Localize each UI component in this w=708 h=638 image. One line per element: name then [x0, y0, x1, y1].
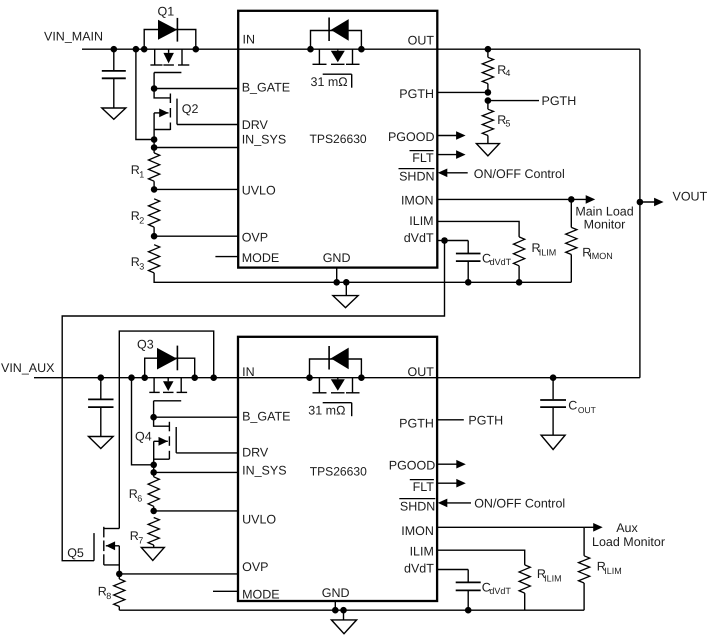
junction dot Q1 drain [193, 46, 200, 53]
op-amp U2 TPS26630 box [238, 337, 437, 601]
svg-text:B_GATE: B_GATE [242, 80, 290, 94]
wire Q4 source branch [132, 378, 154, 465]
wire SHDN arrow U2 [445, 502, 471, 504]
junction dot OVP node [151, 233, 158, 240]
resistor R8 [118, 574, 120, 579]
svg-text:FLT: FLT [412, 151, 434, 165]
wire DRV to IC2 [176, 452, 238, 454]
svg-text:IN: IN [242, 365, 255, 379]
svg-text:PGOOD: PGOOD [389, 458, 436, 472]
ground COUT [541, 435, 565, 449]
svg-text:VOUT: VOUT [673, 190, 708, 204]
svg-text:PGTH: PGTH [399, 417, 434, 431]
svg-text:PGTH: PGTH [542, 94, 577, 108]
svg-text:31 mΩ: 31 mΩ [311, 75, 348, 89]
junction dot Q2 source branch [133, 46, 140, 53]
svg-text:OUT: OUT [408, 34, 435, 48]
diode U2 internal body diode [331, 348, 349, 370]
wire Q2 source branch [136, 49, 154, 139]
capacitor CdVdT aux [467, 570, 469, 583]
ground R5 [476, 144, 499, 156]
wire UVLO to IC1 [154, 188, 238, 190]
svg-text:Aux: Aux [616, 521, 638, 535]
resistor R1 [153, 140, 155, 153]
svg-text:OVP: OVP [242, 230, 268, 244]
wire OUT vertical to VOUT rail [639, 49, 641, 378]
wire R3 bottom to ground rail [154, 273, 571, 282]
svg-text:ILIM: ILIM [410, 545, 434, 559]
svg-text:GND: GND [322, 586, 350, 600]
svg-text:C: C [568, 399, 577, 413]
svg-text:SHDN: SHDN [399, 169, 434, 183]
wire PGOOD arrow U2 [437, 463, 460, 465]
wire B_GATE to IC1 [154, 88, 238, 90]
svg-text:MODE: MODE [242, 251, 280, 265]
svg-text:UVLO: UVLO [242, 513, 276, 527]
svg-text:UVLO: UVLO [242, 184, 276, 198]
junction dot RILIM ground rail [516, 279, 523, 286]
diode Q1 body diode loop wire [144, 30, 196, 50]
junction dot dVdT node [441, 237, 448, 244]
junction dot Q5 source OVP node [116, 571, 123, 578]
wire ILIM to RILIM [437, 221, 519, 237]
svg-text:Load Monitor: Load Monitor [592, 535, 665, 549]
wire IMON arrow aux [584, 526, 597, 528]
resistor R5 [487, 101, 489, 110]
svg-text:VIN_MAIN: VIN_MAIN [44, 30, 103, 44]
junction dot CdVdT ground rail [465, 279, 472, 286]
wire MODE stub U1 [215, 256, 238, 258]
svg-text:OUT: OUT [578, 405, 596, 415]
junction dot COUT branch [550, 374, 557, 381]
wire PGOOD arrow U1 [437, 135, 459, 137]
junction dot GND pin rail [333, 279, 340, 286]
op-amp U1 TPS26630 box [238, 11, 437, 268]
junction dot IMON node [568, 196, 575, 203]
value label 31 mOhm U2 [323, 402, 352, 404]
svg-text:FLT: FLT [413, 480, 435, 494]
svg-text:1: 1 [139, 170, 144, 180]
junction dot PGTH divider [485, 89, 492, 96]
junction dot GND pin rail aux [332, 607, 339, 614]
junction dot B_GATE node [151, 85, 158, 92]
svg-text:IN_SYS: IN_SYS [242, 463, 286, 477]
junction dot VOUT arrow [637, 199, 644, 206]
junction dot Q4 source branch [128, 374, 135, 381]
svg-text:dVdT: dVdT [489, 586, 511, 596]
diode U2 internal body diode loop [310, 359, 362, 378]
junction dot OUT R4 top [485, 46, 492, 53]
svg-text:ON/OFF Control: ON/OFF Control [474, 497, 565, 511]
wire OVP to IC1 [154, 235, 238, 237]
resistor R4 [487, 49, 489, 57]
junction dot U2 FET right [358, 374, 365, 381]
svg-text:dVdT: dVdT [490, 257, 512, 267]
ground R7 [141, 548, 164, 561]
junction dot GND symbol branch [343, 279, 350, 286]
wire DRV to IC1 [177, 124, 238, 126]
svg-text:B_GATE: B_GATE [242, 409, 290, 423]
svg-text:ILIM: ILIM [539, 248, 557, 258]
svg-text:MODE: MODE [242, 588, 280, 602]
junction dot Q2 source elbow [151, 136, 158, 143]
svg-text:OVP: OVP [242, 560, 268, 574]
svg-text:DRV: DRV [242, 118, 269, 132]
wire dVdT long run to Q5 gate [62, 241, 444, 561]
wire IN_SYS to IC1 [154, 147, 238, 149]
junction dot IN_SYS node [151, 144, 158, 151]
resistor RILIM aux right [583, 527, 585, 556]
junction dot IN_SYS2 node [150, 469, 157, 476]
svg-text:TPS26630: TPS26630 [310, 132, 367, 146]
resistor RIMON [570, 199, 572, 227]
svg-text:PGOOD: PGOOD [388, 130, 435, 144]
wire SHDN arrow U1 [445, 172, 468, 174]
wire VOUT arrow [640, 201, 658, 203]
svg-text:3: 3 [139, 262, 144, 272]
resistor R3 [149, 245, 160, 273]
svg-text:Main Load: Main Load [575, 204, 633, 218]
wire UVLO to IC2 [154, 510, 238, 512]
diode Q3 body diode loop wire [145, 358, 195, 378]
wire dVdT to CdVdT aux [437, 569, 468, 571]
junction dot B_GATE2 node [150, 414, 157, 421]
wire PGTH stub U2 [437, 419, 464, 421]
ground U2 GND [343, 610, 345, 620]
wire dVdT to CdVdT [445, 240, 469, 242]
diode Q1 body diode [158, 20, 177, 40]
wire IMON to load monitor [437, 198, 571, 200]
wire OVP to IC2 [119, 573, 238, 575]
transistor Q1 pass FET symbol [154, 49, 156, 65]
value label 31 mOhm U1 [323, 73, 352, 75]
junction dot VIN_MAIN cap branch [111, 46, 118, 53]
transistor U2 internal FET [318, 378, 320, 393]
resistor RILIM main [513, 237, 524, 266]
wire PGTH pin to divider [437, 91, 488, 93]
resistor RILIM aux left [519, 565, 530, 593]
svg-text:8: 8 [106, 591, 111, 601]
wire VIN_AUX rail through IC2 to OUT corner [34, 377, 640, 379]
svg-text:PGTH: PGTH [399, 87, 434, 101]
junction dot aux bypass branch [210, 374, 217, 381]
wire PGTH tap to label [488, 100, 539, 102]
junction dot GND symbol branch aux [340, 607, 347, 614]
svg-text:Q1: Q1 [158, 5, 175, 19]
transistor Q2 small FET [154, 89, 170, 98]
ground input cap aux [89, 437, 114, 449]
junction dot UVLO2 node [150, 508, 157, 515]
junction dot Q3 drain [191, 374, 198, 381]
svg-text:IMON: IMON [401, 524, 434, 538]
wire MODE stub U2 [213, 590, 238, 592]
svg-text:ILIM: ILIM [544, 574, 562, 584]
svg-text:IN_SYS: IN_SYS [242, 133, 286, 147]
junction dot U1 FET left [307, 46, 314, 53]
svg-text:ILIM: ILIM [409, 214, 433, 228]
svg-text:dVdT: dVdT [404, 562, 434, 576]
transistor U1 internal FET [318, 49, 320, 64]
diode U1 internal body diode loop [311, 31, 362, 50]
svg-text:VIN_AUX: VIN_AUX [1, 361, 55, 375]
ground input cap main [102, 108, 126, 119]
wire VIN_MAIN rail to IC1 IN through to OUT [82, 48, 640, 50]
junction dot CdVdT aux ground rail [465, 607, 472, 614]
junction dot PGTH tap [485, 97, 492, 104]
transistor Q4 small FET [154, 417, 170, 426]
wire GND pin U1 [336, 268, 338, 283]
wire IMON to aux monitor [437, 526, 584, 528]
svg-text:OUT: OUT [408, 365, 435, 379]
wire ILIM to RILIM aux [437, 550, 525, 565]
diode U1 internal body diode [331, 19, 349, 41]
ground U1 GND [345, 282, 347, 295]
wire dVdT pin stub [437, 240, 444, 242]
wire FLT arrow U1 [437, 154, 459, 156]
transistor Q5 FET [93, 533, 95, 561]
resistor R2 [149, 199, 160, 227]
junction dot Q4 source elbow [150, 462, 157, 469]
svg-text:TPS26630: TPS26630 [310, 464, 367, 478]
resistor R7 [148, 518, 159, 545]
svg-text:2: 2 [139, 216, 144, 226]
svg-text:IN: IN [243, 33, 256, 47]
diode Q3 body diode [157, 348, 177, 370]
svg-text:4: 4 [505, 68, 510, 78]
capacitor CdVdT main [467, 241, 469, 254]
junction dot Q3 anode [141, 374, 148, 381]
capacitor input bypass aux [100, 378, 102, 400]
svg-text:31 mΩ: 31 mΩ [308, 404, 345, 418]
wire IN_SYS to IC2 [154, 471, 238, 473]
junction dot U1 FET right [358, 46, 365, 53]
svg-text:5: 5 [505, 118, 510, 128]
svg-text:IMON: IMON [401, 194, 434, 208]
wire FLT arrow U2 [437, 482, 460, 484]
wire IMON arrow main [571, 198, 589, 200]
svg-text:Q3: Q3 [137, 338, 154, 352]
svg-text:Monitor: Monitor [584, 218, 626, 232]
svg-text:Q2: Q2 [182, 102, 199, 116]
svg-text:Q5: Q5 [67, 546, 84, 560]
junction dot Q1 anode [141, 46, 148, 53]
wire B_GATE to IC2 [154, 416, 238, 418]
svg-text:6: 6 [137, 494, 142, 504]
junction dot VIN_AUX cap branch [98, 374, 105, 381]
capacitor input bypass main [113, 49, 115, 71]
resistor R6 [153, 465, 155, 477]
transistor Q3 pass FET symbol [153, 378, 155, 393]
wire ground rail aux [119, 609, 584, 611]
wire Q5 drain bypass run [119, 331, 213, 528]
svg-text:ILIM: ILIM [604, 566, 622, 576]
svg-text:IMON: IMON [589, 251, 613, 261]
capacitor COUT [552, 378, 554, 400]
junction dot U2 FET left [306, 374, 313, 381]
svg-text:PGTH: PGTH [468, 414, 503, 428]
svg-text:dVdT: dVdT [404, 231, 434, 245]
svg-text:7: 7 [138, 535, 143, 545]
svg-text:SHDN: SHDN [400, 499, 435, 513]
svg-text:DRV: DRV [242, 446, 269, 460]
wire GND pin U2 [334, 601, 336, 610]
svg-text:ON/OFF Control: ON/OFF Control [474, 167, 565, 181]
svg-text:Q4: Q4 [135, 430, 152, 444]
junction dot UVLO node [151, 186, 158, 193]
svg-text:GND: GND [323, 251, 351, 265]
